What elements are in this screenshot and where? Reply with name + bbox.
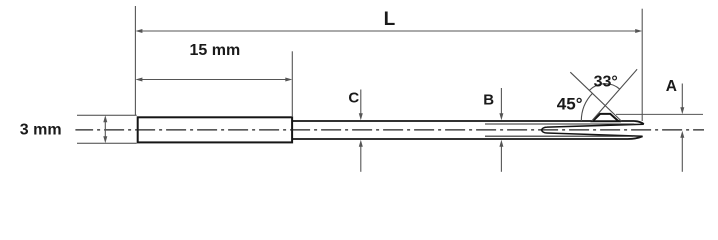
33 deg arc [589, 84, 619, 91]
A lower arrow (up) [681, 137, 683, 172]
A extension line (tip top surface) [616, 113, 703, 115]
C upper arrow (down) [360, 90, 362, 115]
rod top edge [293, 121, 644, 124]
3mm double arrow [104, 119, 106, 140]
15mm right extension line [291, 51, 293, 116]
left extension line [134, 6, 136, 116]
svg-text:A: A [666, 78, 677, 95]
rod bottom edge [293, 136, 643, 139]
handle cylinder (3 mm body) [138, 117, 292, 142]
cutting tip bump (filled trapezoid) [593, 114, 619, 121]
svg-text:3 mm: 3 mm [20, 122, 62, 139]
svg-text:C: C [348, 89, 359, 106]
svg-text:15 mm: 15 mm [190, 42, 241, 59]
svg-text:33°: 33° [594, 74, 618, 91]
B lower arrow (up) [500, 146, 502, 172]
45 deg arc [581, 93, 592, 121]
construction line 45-deg (left foot to upper right) [592, 69, 637, 121]
slot (fork kerf) outline [542, 124, 644, 136]
B upper arrow (down) [500, 88, 502, 115]
dimension 15mm line [142, 79, 286, 81]
construction line (right foot to upper left) [570, 72, 621, 121]
3mm bottom extension line [77, 142, 137, 144]
right extension line for L (to tool tip) [641, 9, 643, 121]
inner thin line upper [485, 123, 634, 125]
svg-text:L: L [384, 9, 396, 30]
C lower arrow (up) [360, 146, 362, 172]
centerline (dash-dot axis) [75, 129, 704, 131]
A upper arrow (down) [681, 84, 683, 109]
inner thin line lower [485, 135, 633, 137]
3mm top extension line [77, 114, 137, 116]
svg-text:B: B [483, 92, 494, 109]
dimension L line [142, 30, 636, 32]
svg-text:45°: 45° [557, 94, 583, 113]
